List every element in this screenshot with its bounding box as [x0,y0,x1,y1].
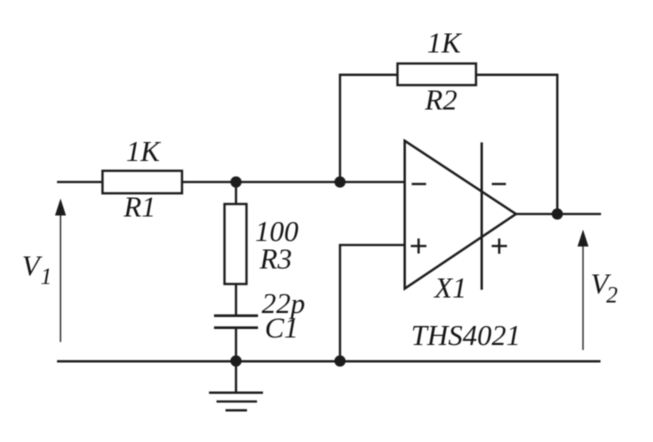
svg-text:1: 1 [41,264,53,289]
svg-text:R2: R2 [424,85,457,117]
svg-text:X1: X1 [434,273,467,305]
svg-text:R1: R1 [123,192,156,224]
svg-text:C1: C1 [265,313,299,345]
svg-text:1K: 1K [427,28,463,60]
svg-text:2: 2 [606,283,618,308]
svg-text:R3: R3 [259,244,292,276]
svg-text:THS4021: THS4021 [411,320,521,352]
svg-text:1K: 1K [126,136,162,168]
